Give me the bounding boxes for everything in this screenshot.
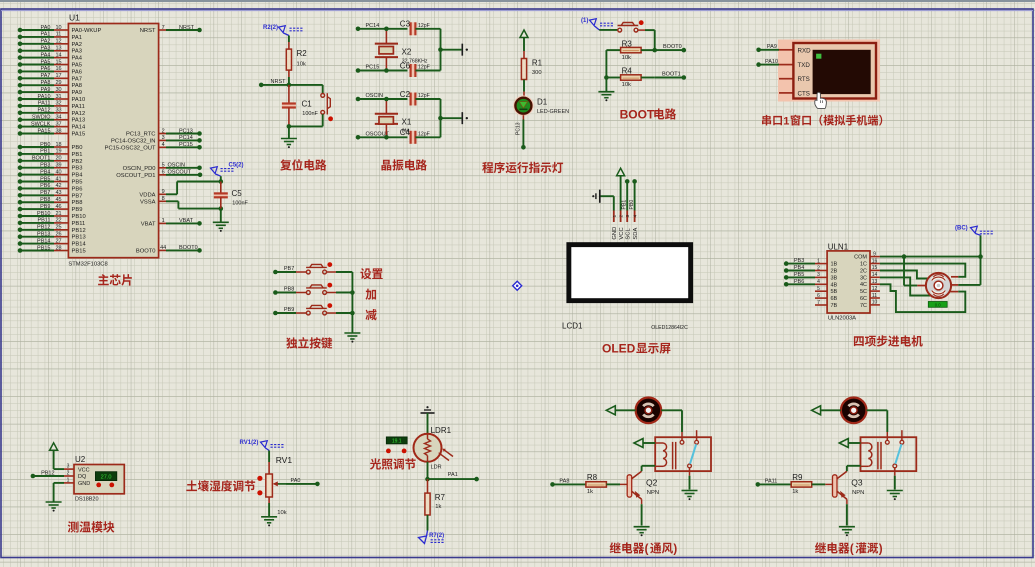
svg-text:SWDIO: SWDIO (32, 115, 51, 121)
pin PB7 (43) left of U1 (18, 190, 83, 199)
svg-text:PA1: PA1 (41, 32, 51, 38)
wire U2 GND (54, 483, 64, 502)
ground U2 (46, 502, 62, 508)
svg-text:NRST: NRST (179, 25, 195, 31)
svg-text:2: 2 (67, 471, 70, 477)
pin PC14-OSC32_IN (3) right of U1 (111, 135, 202, 144)
power arrow relay coil (634, 439, 655, 448)
svg-text:PA2: PA2 (72, 42, 83, 48)
svg-text:PB3: PB3 (72, 166, 83, 172)
resistor R4 (606, 75, 654, 80)
pin 3C (14) of ULN1 (860, 272, 880, 281)
svg-text:BOOT: BOOT (620, 108, 655, 122)
power flag RV1(2) (240, 440, 284, 462)
svg-text:Q3: Q3 (851, 477, 863, 487)
svg-text:TXD: TXD (798, 62, 811, 69)
ground rail OLED (592, 190, 600, 203)
pin SWCLK (37) left of U1 (18, 121, 86, 130)
svg-text:12pF: 12pF (418, 93, 430, 99)
capacitor C5 (214, 182, 228, 209)
svg-text:PA15: PA15 (72, 132, 86, 138)
svg-text:PC14: PC14 (366, 23, 380, 29)
wire PB12 (31, 470, 64, 478)
svg-text:PA14: PA14 (72, 125, 87, 131)
svg-text:PB12: PB12 (72, 228, 86, 234)
pin BOOT0 (44) right of U1 (136, 245, 202, 254)
svg-text:1: 1 (612, 215, 618, 218)
svg-text:PA8: PA8 (72, 83, 83, 89)
power flag (1) (581, 18, 613, 30)
svg-text:(1): (1) (581, 18, 588, 24)
pin COM (9) of ULN1 (854, 251, 880, 260)
svg-text:2: 2 (619, 215, 625, 218)
svg-text:20: 20 (55, 156, 61, 162)
svg-text:D1: D1 (537, 98, 548, 107)
svg-text:PB9: PB9 (284, 307, 294, 313)
svg-text:33: 33 (55, 108, 61, 114)
svg-text:R3: R3 (622, 39, 633, 48)
svg-text:PC15: PC15 (179, 142, 193, 148)
wire BOOT0 (655, 44, 686, 52)
svg-text:16: 16 (55, 66, 61, 72)
wire PA0 (286, 478, 320, 486)
wire 3C to motor (880, 277, 931, 295)
svg-text:27.0: 27.0 (101, 475, 112, 481)
svg-text:PB4: PB4 (72, 173, 84, 179)
button PB8 (306, 283, 352, 295)
relay R8 (655, 430, 711, 471)
svg-text:4: 4 (633, 215, 639, 218)
svg-text:RTS: RTS (798, 76, 810, 83)
pin PA10 (31) left of U1 (18, 94, 86, 103)
pin PA2 (12) left of U1 (18, 39, 82, 48)
pin PB12 (25) left of U1 (18, 225, 86, 234)
wire 2C to motor (880, 271, 928, 279)
wire net PB9 (273, 307, 306, 315)
svg-text:VBAT: VBAT (141, 221, 156, 227)
svg-text:(: ( (850, 544, 854, 556)
power arrow motor (606, 406, 635, 415)
svg-text:PA0: PA0 (41, 25, 51, 31)
svg-text:PB3: PB3 (794, 258, 804, 264)
wire 4C to motor (bottom loop) (880, 284, 965, 312)
wire 1C to motor (880, 264, 965, 277)
wire OLED GND to rail (600, 196, 614, 210)
svg-text:R2(2): R2(2) (263, 25, 278, 31)
svg-text:PA4: PA4 (41, 52, 51, 58)
svg-text:5: 5 (162, 163, 165, 169)
svg-text:PA8: PA8 (41, 80, 51, 86)
origin marker (513, 281, 522, 290)
wire net PA8 (550, 479, 569, 487)
transistor Q2 NPN (627, 471, 641, 499)
U2 temperature display (95, 472, 116, 481)
pin 6B (6) of ULN1 (815, 293, 838, 302)
pin PB13 (26) left of U1 (18, 232, 86, 241)
svg-text:3B: 3B (831, 275, 838, 281)
svg-text:PC15-OSC32_OUT: PC15-OSC32_OUT (105, 145, 156, 151)
svg-text:R7: R7 (435, 493, 446, 502)
svg-text:OSCIN: OSCIN (366, 93, 383, 99)
svg-text:SDA: SDA (633, 228, 639, 240)
svg-text:PA10: PA10 (37, 94, 50, 100)
svg-text:BOOT0: BOOT0 (136, 248, 156, 254)
svg-text:C2: C2 (400, 90, 411, 99)
wire relay common to ground (894, 468, 896, 490)
pin OLED SCL (3) (625, 211, 631, 240)
svg-text:22: 22 (55, 218, 61, 224)
svg-text:PA4: PA4 (72, 56, 83, 62)
svg-text:300: 300 (532, 70, 542, 76)
svg-text:4B: 4B (831, 282, 838, 288)
wire net PC15 (356, 65, 408, 73)
svg-text:OSCIN: OSCIN (168, 163, 185, 169)
svg-text:PC13_RTC: PC13_RTC (126, 132, 156, 138)
wire net PB8 (273, 287, 306, 295)
svg-text:43: 43 (55, 190, 61, 196)
capacitor C2 (411, 93, 441, 106)
svg-text:PB5: PB5 (72, 180, 83, 186)
svg-text:14: 14 (55, 52, 61, 58)
power arrow motor (812, 406, 841, 415)
motor fan Q2 (636, 398, 662, 424)
ground relay (682, 491, 698, 497)
title 主芯片 (98, 274, 109, 285)
svg-text:1B: 1B (831, 262, 838, 268)
svg-text:DQ: DQ (78, 474, 87, 480)
title 减 (366, 309, 377, 320)
svg-text:12pF: 12pF (418, 23, 430, 29)
capacitor C4 (411, 131, 441, 144)
svg-text:11: 11 (872, 293, 877, 299)
pin PB15 (28) left of U1 (18, 245, 86, 254)
pin OLED SDA (4) (633, 211, 639, 240)
svg-text:R1: R1 (532, 59, 543, 68)
pin PA6 (16) left of U1 (18, 66, 82, 75)
wire relay common to ground (689, 468, 691, 490)
wire button bus to ground (350, 272, 355, 333)
svg-text:C5(2): C5(2) (229, 163, 244, 169)
svg-text:BOOT0: BOOT0 (663, 44, 682, 50)
power rail LDR top (421, 406, 435, 413)
svg-text:7C: 7C (860, 303, 867, 309)
svg-text:PA0: PA0 (291, 478, 301, 484)
svg-text:GND: GND (78, 481, 90, 487)
title 程序运行指示灯 (482, 162, 493, 173)
svg-text:RV1(2): RV1(2) (240, 440, 259, 446)
svg-text:7: 7 (162, 25, 165, 31)
svg-text:13: 13 (872, 279, 878, 285)
svg-text:RXD: RXD (798, 47, 812, 54)
svg-text:1: 1 (67, 478, 70, 484)
pin 5C (12) of ULN1 (860, 286, 880, 295)
svg-text:PA6: PA6 (41, 66, 51, 72)
svg-text:39: 39 (55, 163, 61, 169)
svg-text:PB6: PB6 (794, 279, 804, 285)
svg-text:38: 38 (55, 128, 61, 134)
wire R3-R4 left bus (604, 50, 609, 80)
power arrow relay coil (839, 439, 860, 448)
svg-text:PC13: PC13 (179, 128, 193, 134)
pin PA4 (14) left of U1 (18, 52, 83, 61)
wire net OSCOUT (356, 132, 408, 140)
svg-text:45: 45 (55, 197, 61, 203)
svg-text:PB7: PB7 (72, 193, 83, 199)
svg-text:PB8: PB8 (40, 197, 50, 203)
svg-text:PB7: PB7 (284, 266, 294, 272)
title 四项步进电机 (854, 336, 864, 346)
svg-text:BOOT1: BOOT1 (662, 72, 681, 78)
svg-text:16: 16 (872, 258, 878, 264)
pin PA9 (30) left of U1 (18, 87, 82, 96)
power flag R7(2) (419, 531, 445, 544)
virtual terminal body (793, 43, 876, 99)
ground below C5 (213, 222, 229, 228)
node C5 bottom junction (219, 206, 224, 211)
title 独立按键 (286, 337, 297, 348)
svg-text:PB10: PB10 (37, 211, 50, 217)
svg-text:GND: GND (612, 227, 618, 240)
pin PB10 (21) left of U1 (18, 211, 86, 220)
svg-text:VCC: VCC (619, 227, 625, 239)
capacitor C3 (411, 22, 441, 35)
svg-text:PB7: PB7 (40, 190, 50, 196)
svg-text:PA6: PA6 (72, 69, 83, 75)
pin PA8 (29) left of U1 (18, 80, 82, 89)
ground emitter (839, 527, 855, 533)
svg-text:10k: 10k (622, 55, 631, 61)
pin 7B (7) of ULN1 (815, 300, 838, 309)
pin 4C (13) of ULN1 (860, 279, 880, 288)
pin 1B (1) of ULN1 (784, 258, 838, 267)
svg-text:29: 29 (55, 80, 61, 86)
svg-text:9: 9 (873, 251, 876, 257)
pin RXD stub (779, 49, 793, 51)
svg-text:PB1: PB1 (72, 152, 83, 158)
svg-text:15: 15 (55, 59, 61, 65)
svg-text:25: 25 (55, 225, 61, 231)
svg-text:1k: 1k (435, 504, 441, 510)
svg-text:100nF: 100nF (302, 111, 318, 117)
svg-text:NPN: NPN (852, 490, 864, 496)
pin TXD stub (779, 64, 793, 66)
wire crystal right bus (438, 29, 461, 71)
svg-text:12: 12 (55, 39, 61, 45)
crystal X1 (375, 97, 398, 140)
svg-text:PB11: PB11 (37, 218, 50, 224)
svg-text:40: 40 (55, 169, 61, 175)
svg-text:): ) (879, 544, 883, 556)
chip U1 STM32F103C8 (68, 24, 158, 258)
svg-text:(BC): (BC) (955, 226, 968, 232)
pin NRST (7) right of U1 (140, 25, 202, 34)
svg-text:41: 41 (55, 176, 61, 182)
svg-text:PB5: PB5 (794, 272, 804, 278)
wire COM to motor left (904, 257, 917, 286)
pin PC15-OSC32_OUT (4) right of U1 (105, 142, 202, 151)
svg-text:ULN2003A: ULN2003A (828, 316, 856, 322)
ground rail crystal (461, 112, 463, 124)
title 串口1窗口（模拟手机端） (762, 115, 771, 126)
svg-text:C1: C1 (302, 100, 313, 109)
pin RTS stub (779, 78, 793, 80)
U2 buttons (96, 483, 101, 488)
pin DQ (2) of U2 (64, 471, 87, 481)
resistor R3 (606, 47, 654, 52)
RV1 wiper arrow (273, 481, 286, 486)
ground RV1 (261, 517, 277, 523)
svg-text:5: 5 (817, 286, 820, 292)
svg-text:PC15: PC15 (366, 65, 380, 71)
svg-text:21: 21 (55, 211, 61, 217)
svg-text:13: 13 (55, 46, 61, 52)
pin PA3 (13) left of U1 (18, 46, 82, 55)
svg-text:3: 3 (817, 272, 820, 278)
pin PB0 (18) left of U1 (18, 142, 83, 151)
svg-text:26: 26 (55, 232, 61, 238)
wire C5 to ground (220, 209, 222, 222)
wire BOOT1 (655, 72, 686, 80)
wire PA10 (756, 59, 779, 67)
ground rail crystal (461, 44, 463, 56)
svg-text:30: 30 (55, 87, 61, 93)
wire SDA to PB0 (629, 179, 637, 210)
ground reset (281, 139, 297, 145)
wire PA1 (428, 472, 479, 482)
ground buttons (344, 333, 360, 339)
svg-text:PA8: PA8 (559, 479, 569, 485)
svg-text:17: 17 (55, 73, 61, 79)
pin PB4 (40) left of U1 (18, 169, 84, 178)
svg-text:PB4: PB4 (40, 169, 50, 175)
button boot0 (599, 20, 655, 50)
svg-text:28: 28 (55, 245, 61, 251)
svg-text:2C: 2C (860, 268, 867, 274)
svg-text:PC14-OSC32_IN: PC14-OSC32_IN (111, 138, 155, 144)
svg-text:C6: C6 (400, 61, 411, 70)
chip ULN1 ULN2003A (827, 251, 870, 313)
svg-text:PB10: PB10 (72, 214, 86, 220)
pin PB6 (42) left of U1 (18, 183, 83, 192)
wire net PA11 (756, 479, 778, 487)
svg-text:5B: 5B (831, 289, 838, 295)
svg-text:8: 8 (162, 196, 165, 202)
svg-text:OLED: OLED (602, 342, 636, 356)
wire VSSA to C5 bottom (166, 201, 221, 208)
LDR buttons (386, 449, 391, 454)
pin PA0 (10) left of U1 (18, 25, 102, 34)
svg-text:PA9: PA9 (767, 44, 777, 50)
svg-text:R8: R8 (587, 473, 598, 482)
svg-text:SCL: SCL (625, 228, 631, 240)
power arrow U2 VCC (50, 443, 64, 469)
svg-text:2: 2 (162, 128, 165, 134)
capacitor C6 (411, 64, 441, 77)
svg-text:PB8: PB8 (284, 287, 294, 293)
svg-text:PB13: PB13 (72, 235, 86, 241)
svg-text:PA7: PA7 (72, 76, 83, 82)
wire emitter to ground (846, 499, 848, 525)
svg-text:LED-GREEN: LED-GREEN (537, 109, 569, 115)
wire LDR to PA1 node (425, 462, 430, 482)
pin PB8 (45) left of U1 (18, 197, 83, 206)
svg-text:6C: 6C (860, 296, 867, 302)
svg-text:OLED12864I2C: OLED12864I2C (651, 325, 688, 331)
power flag C5(2) (211, 163, 244, 182)
pin PB1 (19) left of U1 (18, 149, 83, 158)
ground emitter (634, 527, 650, 533)
wire net PB7 (273, 266, 306, 274)
button reset (321, 85, 333, 127)
svg-text:15: 15 (872, 265, 878, 271)
svg-text:COM: COM (854, 255, 867, 261)
node BOOT0 junction (652, 48, 657, 53)
pin PA7 (17) left of U1 (18, 73, 82, 82)
svg-text:PA5: PA5 (41, 59, 51, 65)
display LCD1 OLED (566, 242, 693, 303)
svg-text:PA15: PA15 (37, 128, 50, 134)
svg-text:PB11: PB11 (72, 221, 86, 227)
wire motor to relay (867, 410, 888, 440)
svg-text:PB0: PB0 (629, 200, 635, 210)
wire collector to coil (642, 466, 656, 471)
motor fan Q3 (841, 398, 867, 424)
svg-text:10k: 10k (297, 62, 306, 68)
pin PB11 (22) left of U1 (18, 218, 86, 227)
svg-text:PB15: PB15 (37, 245, 50, 251)
node R2/C1 junction (287, 83, 292, 88)
svg-text:1k: 1k (792, 489, 798, 495)
svg-text:PA9: PA9 (72, 90, 83, 96)
pin VDDA (9) right of U1 (139, 189, 166, 198)
svg-text:R4: R4 (622, 67, 633, 76)
svg-text:46: 46 (55, 204, 61, 210)
svg-text:OSCOUT_PD1: OSCOUT_PD1 (116, 173, 155, 179)
svg-text:2B: 2B (831, 269, 838, 275)
svg-text:34: 34 (55, 115, 61, 121)
svg-text:U2: U2 (75, 455, 86, 464)
pin 2B (2) of ULN1 (784, 265, 838, 274)
svg-text:PB5: PB5 (40, 176, 50, 182)
svg-text:PB6: PB6 (72, 186, 83, 192)
svg-text:LCD1: LCD1 (562, 321, 583, 330)
power arrow OLED VCC (617, 168, 625, 210)
pin OSCIN_PD0 (5) right of U1 (123, 163, 202, 172)
wire SCL to PB1 (621, 179, 629, 210)
svg-text:PA3: PA3 (41, 46, 51, 52)
svg-text:31: 31 (55, 94, 61, 100)
pin 5B (5) of ULN1 (815, 286, 838, 295)
pin 2C (15) of ULN1 (860, 265, 880, 274)
wire collector to coil (847, 466, 861, 471)
svg-text:3: 3 (625, 215, 631, 218)
svg-text:PB14: PB14 (37, 238, 50, 244)
pin 3B (3) of ULN1 (784, 272, 838, 281)
svg-text:ULN1: ULN1 (828, 242, 849, 251)
svg-text:3: 3 (162, 135, 165, 141)
svg-text:6: 6 (162, 170, 165, 176)
svg-text:PA2: PA2 (41, 39, 51, 45)
svg-text:6B: 6B (831, 296, 838, 302)
pin OSCOUT_PD1 (6) right of U1 (116, 170, 202, 179)
svg-text:X1: X1 (402, 118, 412, 127)
svg-text:100nF: 100nF (232, 201, 248, 207)
svg-text:VSSA: VSSA (140, 199, 156, 205)
svg-text:R2: R2 (297, 49, 308, 58)
wire emitter to ground (641, 499, 643, 525)
svg-text:OSCIN_PD0: OSCIN_PD0 (123, 166, 156, 172)
svg-text:27: 27 (55, 238, 61, 244)
